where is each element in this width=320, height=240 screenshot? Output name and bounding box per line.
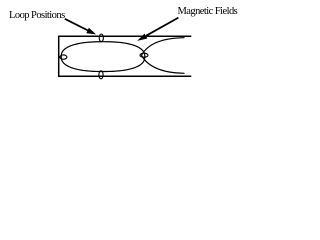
right magnetic field line (open half ellipse) [142,38,185,74]
solenoid outline: bottom wall [58,75,191,77]
loop at left end [60,55,67,59]
loop at bottom wall [99,71,103,79]
label: Magnetic Fields [178,6,238,18]
arrow from Loop Positions label to top loop [65,19,96,35]
solenoid outline: top wall [58,35,191,37]
label: Loop Positions [9,10,65,22]
left magnetic field line (closed ellipse) [61,42,145,72]
arrow from Magnetic Fields label to field-line junction [137,18,178,41]
loop at top wall [99,34,103,42]
loop at field-line junction [140,53,148,57]
solenoid outline: left end wall [58,36,60,77]
